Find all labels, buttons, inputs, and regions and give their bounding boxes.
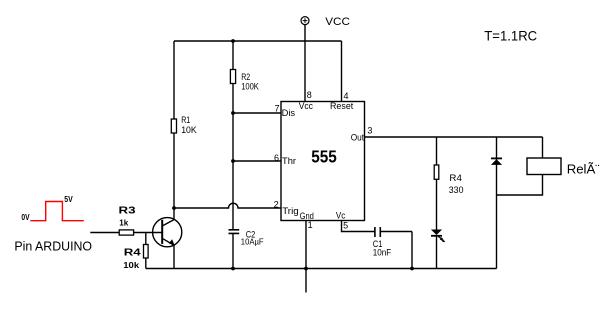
transistor Q1 <box>153 218 182 247</box>
label 5V <box>64 194 73 204</box>
svg-text:Out: Out <box>351 132 365 142</box>
pin label Vc <box>336 210 346 221</box>
wire mid vertical <box>232 113 234 161</box>
wire LED lower <box>436 237 438 269</box>
resistor R3 <box>119 230 133 235</box>
label Pin ARDUINO <box>14 238 92 253</box>
value 10K <box>181 125 197 135</box>
svg-text:8: 8 <box>307 90 312 100</box>
wire R4 10k upper <box>145 233 147 245</box>
svg-text:10AµF: 10AµF <box>241 237 264 246</box>
wire relay bottom <box>497 175 543 196</box>
label C2 <box>246 230 256 240</box>
svg-text:Pin ARDUINO: Pin ARDUINO <box>14 238 92 253</box>
pin label Thr <box>282 156 296 166</box>
pin label Out <box>351 132 365 142</box>
svg-text:Dis: Dis <box>282 108 296 118</box>
wire top rail VCC <box>174 40 342 42</box>
label R4 10k <box>124 247 141 258</box>
IC U1 555 body <box>281 102 365 221</box>
wire R2 branch upper <box>232 41 234 70</box>
wire C2 lower <box>232 233 234 268</box>
wire emitter stub <box>173 245 175 268</box>
wire Trig line with hop <box>174 203 281 208</box>
svg-text:T=1.1RC: T=1.1RC <box>484 28 537 43</box>
svg-text:10nF: 10nF <box>373 247 391 258</box>
label Rele <box>567 161 600 176</box>
svg-text:Thr: Thr <box>282 156 296 166</box>
value 1k <box>119 217 128 227</box>
wire R1 branch lower <box>173 133 175 208</box>
wire pin1 Gnd stub <box>305 221 307 293</box>
svg-text:R4: R4 <box>124 247 141 258</box>
label 555 <box>311 146 337 166</box>
node pin7 junction <box>231 111 235 115</box>
pin number 5 <box>343 221 348 231</box>
pin number 1 <box>308 220 313 230</box>
svg-text:3: 3 <box>367 125 372 135</box>
value 10uF <box>241 237 264 246</box>
svg-text:Gnd: Gnd <box>300 210 315 221</box>
svg-text:RelÃ¨: RelÃ¨ <box>567 161 600 176</box>
pin number 7 <box>275 104 280 114</box>
svg-text:555: 555 <box>311 146 337 166</box>
label R4 330 <box>449 173 462 184</box>
svg-text:VCC: VCC <box>325 17 350 28</box>
svg-text:10K: 10K <box>181 125 197 135</box>
svg-text:R3: R3 <box>119 205 137 216</box>
svg-text:Vcc: Vcc <box>299 101 314 111</box>
wire C1 right <box>381 232 412 269</box>
node pin6 junction <box>231 159 235 163</box>
resistor R1 <box>171 119 176 133</box>
wire relay top drop <box>542 137 544 158</box>
label R2 <box>241 72 250 82</box>
VCC supply symbol <box>301 17 309 41</box>
pin number 4 <box>344 91 349 101</box>
svg-text:5V: 5V <box>64 194 73 204</box>
wire base segment <box>134 232 162 234</box>
wire pin8 drop <box>304 41 306 102</box>
capacitor C2 <box>229 230 240 234</box>
pin number 2 <box>274 200 279 210</box>
wire pin5 to C1 <box>342 221 375 232</box>
svg-text:Trig: Trig <box>282 205 298 216</box>
wire input segment <box>90 232 119 234</box>
svg-text:100K: 100K <box>241 81 259 92</box>
value 10k <box>123 260 140 270</box>
label R3 <box>119 205 137 216</box>
pin label Vcc <box>299 101 314 111</box>
pin label Trig <box>282 205 298 216</box>
pin label Reset <box>330 101 354 111</box>
node collector junction <box>172 206 176 210</box>
label C1 <box>373 238 383 249</box>
svg-text:5: 5 <box>343 221 348 231</box>
value 330 <box>449 185 464 195</box>
svg-text:1: 1 <box>308 220 313 230</box>
waveform pulse red <box>30 202 83 221</box>
wire R1 branch upper <box>173 41 175 119</box>
svg-text:1k: 1k <box>119 217 128 227</box>
value 10nF <box>373 247 391 258</box>
svg-text:2: 2 <box>274 200 279 210</box>
svg-text:330: 330 <box>449 185 464 195</box>
wire collector stub <box>173 208 175 219</box>
pin label Dis <box>282 108 296 118</box>
wire R2 branch lower <box>232 84 234 114</box>
node pin1 ground junction <box>304 267 308 271</box>
node C1 ground junction <box>410 267 414 271</box>
svg-text:R4: R4 <box>449 173 462 184</box>
node R2 top junction <box>231 39 235 43</box>
label VCC <box>325 17 350 28</box>
wire pin7 Dis <box>233 112 281 114</box>
capacitor C1 <box>375 227 380 237</box>
resistor R4 330 <box>434 165 439 179</box>
wire pin3 Out <box>365 136 543 138</box>
value 100K <box>241 81 259 92</box>
resistor R4 10k <box>144 245 149 259</box>
label R1 <box>181 115 190 125</box>
pin label Gnd <box>300 210 315 221</box>
svg-text:6: 6 <box>274 153 279 163</box>
wire R4 330 branch lower <box>436 179 438 230</box>
svg-text:4: 4 <box>344 91 349 101</box>
wire R4 10k lower <box>145 258 147 269</box>
LED D2 <box>431 230 445 243</box>
wire R4 330 branch upper <box>436 137 438 165</box>
wire ground rail <box>146 268 497 270</box>
svg-text:7: 7 <box>275 104 280 114</box>
pin number 8 <box>307 90 312 100</box>
diode D1 flyback <box>491 158 502 165</box>
pin number 3 <box>367 125 372 135</box>
relay coil box <box>527 158 561 175</box>
wire pin4 drop <box>341 41 343 102</box>
node C2 ground junction <box>231 267 235 271</box>
label 0V <box>21 213 29 223</box>
wire pin6 Thr <box>233 160 281 162</box>
svg-text:Reset: Reset <box>330 101 354 111</box>
svg-text:0V: 0V <box>21 213 29 223</box>
wire C2 upper <box>232 161 234 230</box>
svg-text:10k: 10k <box>123 260 140 270</box>
pin number 6 <box>274 153 279 163</box>
svg-text:Vc: Vc <box>336 210 346 221</box>
resistor R2 <box>230 70 235 84</box>
label T=1.1RC <box>484 28 537 43</box>
wire diode branch <box>496 137 498 269</box>
